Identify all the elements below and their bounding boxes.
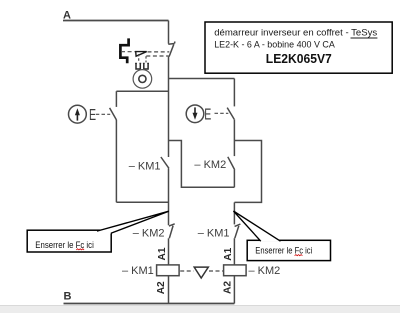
svg-text:E: E (204, 105, 211, 123)
wire rail A (63, 20, 169, 22)
wire E1 loop left lower (115, 120, 117, 202)
overload trip actuator (bold zigzag) (120, 38, 128, 63)
E2 actuator dashed link (215, 112, 229, 114)
coil KM2 (224, 265, 247, 276)
wire main left column mid (168, 168, 170, 225)
E2 NO contact blade (227, 108, 234, 120)
spellcheck squiggle right (295, 255, 303, 256)
interlock dashed links (180, 270, 223, 272)
spellcheck squiggle left (76, 249, 84, 250)
stop button O marking (139, 75, 146, 82)
callout box left (27, 230, 111, 252)
wire right column top (233, 79, 235, 107)
callout wedge right (233, 211, 280, 241)
svg-text:A2: A2 (222, 281, 233, 294)
wire rail B (64, 303, 235, 305)
wire coil KM1 to rail B (168, 276, 170, 304)
stop button head (133, 70, 152, 89)
start button E1 head (69, 105, 87, 123)
mechanical linkage dashed flag-to-contact (146, 52, 169, 56)
wire E1 loop bottom (116, 201, 168, 203)
wire tap to E1 loop top (116, 90, 168, 92)
wire E1 loop left upper (115, 91, 117, 107)
wire right column lower (233, 202, 235, 224)
svg-text:A: A (63, 9, 71, 21)
svg-text:– KM2: – KM2 (249, 265, 281, 277)
thermal overload heater elements (136, 63, 148, 69)
wire bypass loop right (234, 141, 261, 203)
callout box right (247, 240, 330, 260)
svg-text:démarreur inverseur en coffret: démarreur inverseur en coffret - TeSys (214, 28, 377, 39)
svg-text:A1: A1 (223, 247, 234, 260)
KM2 NC interlock contact (left) (169, 224, 175, 239)
svg-text:LE2-K - 6 A - bobine 400 V CA: LE2-K - 6 A - bobine 400 V CA (214, 39, 335, 50)
dashed links heater to flag (139, 54, 146, 62)
E1 NO contact blade (110, 108, 117, 120)
svg-text:– KM1: – KM1 (122, 265, 154, 277)
wire E2 to node (233, 119, 235, 140)
KM1 auxiliary NO contact blade (161, 157, 169, 168)
wire to coil KM1 (168, 238, 170, 265)
svg-text:– KM1: – KM1 (198, 228, 230, 240)
coil KM1 (157, 265, 180, 276)
wire crossover jog (169, 141, 235, 188)
callout wedge left (97, 211, 169, 233)
svg-text:A2: A2 (156, 281, 167, 294)
mechanical interlock triangle (194, 267, 208, 278)
wire to coil KM2 (233, 238, 235, 265)
overload NC trip contact (168, 42, 175, 57)
wire main left column upper (168, 57, 170, 157)
mechanical linkage dashed actuator-to-flag (121, 51, 135, 53)
TeSys underline (351, 37, 378, 39)
svg-text:E: E (89, 106, 96, 124)
wire branch to right column (169, 78, 235, 80)
info box (205, 22, 392, 73)
svg-text:A1: A1 (157, 247, 168, 260)
overload trip flag triangle (136, 52, 147, 57)
E2 arrow (194, 107, 196, 113)
svg-text:Enserrer le Fc ici: Enserrer le Fc ici (35, 240, 94, 250)
svg-text:Enserrer le Fc ici: Enserrer le Fc ici (255, 246, 312, 256)
start button E2 head (186, 105, 204, 123)
E1 arrow (76, 115, 78, 121)
wire coil KM2 to rail B (233, 276, 235, 304)
window bottom strip (0, 306, 400, 313)
svg-text:– KM2: – KM2 (194, 159, 226, 171)
svg-text:– KM1: – KM1 (129, 160, 161, 172)
svg-text:B: B (64, 291, 72, 303)
svg-text:LE2K065V7: LE2K065V7 (266, 51, 332, 66)
E1 actuator dashed link (96, 113, 110, 115)
wire rail A drop (168, 21, 170, 44)
KM2 auxiliary NO contact (228, 141, 235, 188)
svg-text:– KM2: – KM2 (133, 228, 165, 240)
KM1 NC interlock contact (235, 224, 241, 238)
